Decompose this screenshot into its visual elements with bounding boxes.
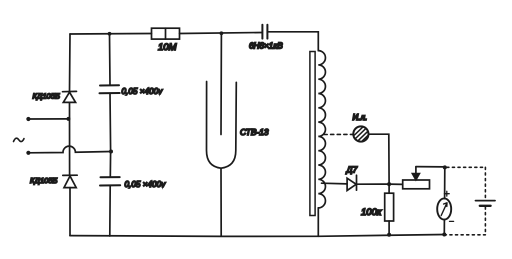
node junction diode lamp resistor: [387, 182, 391, 186]
meter PA1 microammeter: [437, 198, 451, 219]
wire lamp to vertical drop: [369, 134, 390, 184]
wire left vertical middle: [69, 102, 71, 175]
wire transformer bottom lead: [317, 208, 319, 236]
capacitor C3 6N8x1kV: [262, 25, 267, 39]
meter plus sign: [444, 191, 449, 196]
potentiometer RP1 wiper arrow: [412, 167, 419, 180]
wire resistor bottom to rail: [388, 221, 390, 235]
diode VD3 D7: [347, 175, 356, 190]
node top of tube electrode: [220, 31, 224, 35]
svg-text:100к: 100к: [361, 207, 382, 218]
wire capacitor branch middle: [109, 93, 112, 177]
wire tube stem to bottom rail: [220, 168, 222, 236]
wire bottom rail: [70, 235, 444, 237]
wire meter top lead: [444, 167, 446, 198]
svg-text:КД105Б: КД105Б: [33, 92, 60, 101]
battery GB1 short plate: [480, 205, 491, 207]
neon lamp HL1: [353, 126, 368, 141]
wire top rail right segment into transformer: [267, 32, 318, 51]
wire upper input: [28, 118, 68, 120]
transformer T1 core: [310, 52, 315, 216]
resistor R1 10M: [152, 28, 180, 39]
wire capacitor branch upper: [109, 34, 112, 86]
capacitor C2 0.05x400V: [100, 177, 120, 185]
node input terminal lower: [26, 151, 30, 155]
battery GB1 long plate: [476, 200, 496, 202]
svg-text:Д7: Д7: [346, 165, 358, 175]
wire top rail middle segment: [180, 33, 263, 34]
wire dashed top right to battery branch: [447, 166, 486, 168]
node resistor bottom on rail: [387, 233, 391, 237]
svg-text:КД105Б: КД105Б: [30, 176, 57, 185]
wire dashed tap to neon lamp: [324, 133, 353, 135]
tube U1 STV-13 electrode wire: [220, 33, 222, 134]
tube U1 STV-13 envelope: [207, 82, 237, 169]
wire dashed right vertical upper: [484, 167, 486, 199]
wire meter bottom lead: [443, 220, 445, 235]
capacitor C1 0.05x400V: [100, 85, 120, 93]
wire diode to junction: [357, 183, 390, 185]
svg-text:СТВ-13: СТВ-13: [240, 127, 269, 137]
svg-text:И.л.: И.л.: [353, 113, 368, 122]
node top of capacitor branch: [108, 32, 112, 36]
svg-text:0,05 ×400v: 0,05 ×400v: [125, 180, 167, 189]
node junction upper input on diode line: [67, 117, 71, 121]
node input terminal upper: [26, 117, 30, 121]
node junction wiper meter dashed: [443, 165, 447, 169]
wire junction to potentiometer: [389, 183, 403, 185]
wire top rail left segment: [70, 33, 152, 36]
wire capacitor branch lower: [109, 186, 111, 237]
transformer T1 winding: [318, 51, 325, 208]
meter minus sign: [450, 220, 454, 222]
diode VD2 KD105B (lower): [63, 175, 77, 187]
wire lower input with hop over diode line: [28, 146, 111, 153]
svg-text:10М: 10М: [158, 42, 177, 53]
wire dashed right vertical lower: [484, 207, 486, 235]
wire dashed bottom right: [444, 234, 485, 236]
potentiometer RP1 body: [403, 180, 430, 189]
svg-text:6Н8×1кВ: 6Н8×1кВ: [249, 42, 283, 51]
diode VD1 KD105B (upper): [63, 91, 77, 102]
wire tap to diode D7: [322, 182, 348, 185]
resistor R2 100k body: [385, 193, 394, 221]
node junction lower input on capacitor line: [109, 150, 113, 154]
wire left vertical lower: [69, 188, 71, 236]
svg-text:0,05 ×400v: 0,05 ×400v: [122, 87, 164, 96]
wire wiper to meter junction: [416, 166, 445, 168]
wire left vertical upper: [69, 34, 72, 92]
AC source symbol ~: [14, 138, 25, 141]
node meter bottom on rail: [442, 233, 446, 237]
wire junction to resistor top: [388, 184, 390, 193]
